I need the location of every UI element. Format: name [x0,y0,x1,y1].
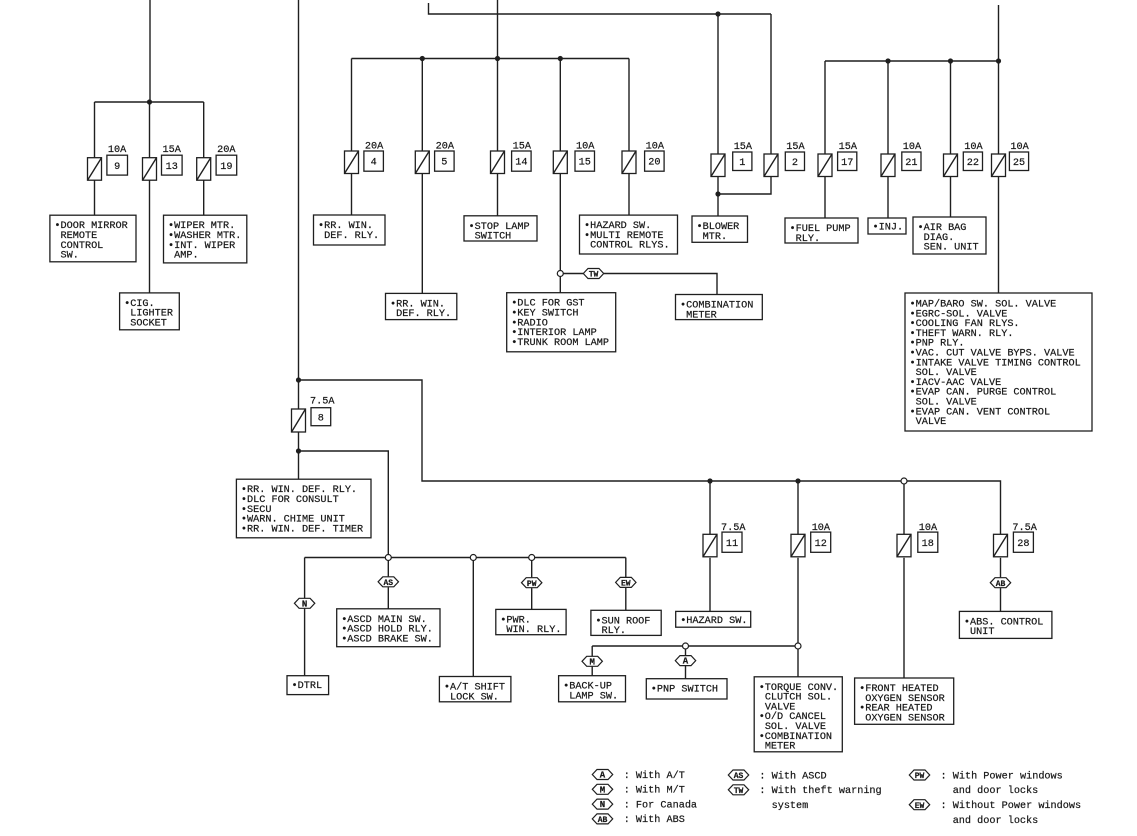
wire to A symbol [685,646,687,655]
wire fuse 19 to wiper box [203,180,205,215]
fuse F2 (15A) [764,142,806,177]
svg-text:25: 25 [1013,158,1025,169]
svg-text:•PNP SWITCH: •PNP SWITCH [651,685,718,696]
option symbol AB - legend [592,814,612,825]
wire bus C [592,645,798,647]
load box: RR WIN DEF RLY (1) [314,215,386,245]
fuse F12 (10A) [791,523,831,557]
svg-text:4: 4 [371,158,377,169]
svg-text:TW: TW [734,787,744,796]
svg-text:14: 14 [515,158,527,169]
load box: RR WIN DEF RLY / DLC FOR CONSULT / SECU / WARN CHIME UNIT / RR WIN DEF TIMER [236,479,371,538]
wire bus 3 [825,60,999,62]
svg-text:: With ASCD: : With ASCD [759,770,826,782]
fuse F17 (15A) [818,142,858,177]
svg-text:7.5A: 7.5A [721,523,746,534]
junction connector [557,271,563,277]
wire to fuse 18 [903,481,905,534]
load box: COMBINATION METER [676,295,763,322]
load box: WIPER MTR / WASHER MTR / INT WIPER AMP [164,215,247,263]
wire fuse 14 to stop lamp box [497,174,499,216]
wire to fuse 13 [149,102,151,158]
junction [885,58,890,63]
wire fuse 22 to air bag box [950,177,952,218]
svg-text:CONTROL RLYS.: CONTROL RLYS. [590,241,669,252]
load box: HAZARD SW. [676,611,751,627]
junction [558,56,563,61]
junction [715,11,720,16]
load box: BACK-UP LAMP SW. [559,676,626,703]
wire to fuse 14 upper [497,59,499,152]
option symbol AS - with ASCD [378,577,398,588]
svg-text:10A: 10A [903,142,922,153]
fuse F4 (20A) [345,141,385,173]
load box: CIG. LIGHTER SOCKET [120,293,180,330]
svg-text:A: A [600,771,606,781]
option symbol N - legend [592,799,612,810]
junction [147,99,152,104]
svg-text:SOCKET: SOCKET [130,319,167,330]
wire to fuse 21 [887,61,889,154]
fuse F28 (7.5A) [994,523,1038,557]
fuse F21 (10A) [881,142,922,177]
svg-text:7.5A: 7.5A [1012,523,1037,534]
svg-text:RLY.: RLY. [602,626,626,637]
wire to fuse 12 [797,481,799,534]
option symbol N - for Canada [294,598,314,609]
fuse F25 (10A) [992,142,1030,177]
option symbol A - with A/T [675,656,695,667]
svg-text:AB: AB [996,580,1006,589]
junction [715,191,720,196]
fuse F13 (15A) [143,145,183,180]
fuse F19 (20A) [197,145,237,180]
svg-text:WIN. RLY.: WIN. RLY. [506,625,561,636]
wire fuse 9 to door mirror box [94,180,96,215]
wire feed to bus 2 [497,0,499,59]
svg-text:AS: AS [383,579,393,588]
wire fuse 5 to rr win def rly box 2 [421,174,423,294]
svg-text:•ASCD BRAKE SW.: •ASCD BRAKE SW. [341,634,433,645]
wire PW to pwr win rly box [531,588,533,609]
svg-text:RLY.: RLY. [796,234,820,245]
wire to fuse 22 [950,61,952,154]
svg-text:2: 2 [792,158,798,169]
load box: DTRL [287,676,329,695]
svg-text:AS: AS [734,772,744,781]
wire to a/t shift lock box [472,558,474,677]
svg-text:13: 13 [166,162,178,173]
load box: HAZARD SW / MULTI REMOTE CONTROL RLYS [580,215,678,254]
option symbol EW - without power windows [616,577,636,588]
svg-text:: With A/T: : With A/T [624,770,685,782]
wire to fuse 2 [770,14,772,154]
wire bus2 to fuse 14 [497,151,499,174]
wire feed left [149,0,151,102]
svg-text:15A: 15A [513,141,532,152]
option symbol PW - with power windows [522,578,542,589]
svg-text:M: M [600,785,605,795]
fuse F5 (20A) [415,141,455,173]
svg-text:18: 18 [922,539,934,550]
svg-text:DEF. RLY.: DEF. RLY. [396,309,451,320]
svg-text:: With M/T: : With M/T [624,785,685,797]
wire bus A [305,557,626,559]
svg-text:: Without Power windows: : Without Power windows [941,800,1082,812]
svg-text:system: system [772,801,809,812]
junction connector [795,643,801,649]
wire AB to abs control box [1000,588,1002,611]
svg-text:20A: 20A [436,141,455,152]
svg-text:•INJ.: •INJ. [873,223,904,234]
junction [707,478,712,483]
svg-text:A: A [683,657,689,667]
wire EW to sun roof box [625,588,627,611]
option symbol TW - with theft warning [583,269,603,280]
wire fuse 18 to oxygen sensor box [903,558,905,678]
svg-text:LOCK SW.: LOCK SW. [450,692,499,703]
option symbol M - legend [592,784,612,795]
option symbol AB - with ABS [990,578,1010,589]
svg-text:•DTRL: •DTRL [292,681,323,692]
svg-text:: With Power windows: : With Power windows [941,770,1063,782]
svg-text:PW: PW [915,772,925,781]
svg-text:10A: 10A [919,523,938,534]
svg-text:10A: 10A [108,145,127,156]
svg-text:and door locks: and door locks [953,815,1039,827]
wire fuse 28 to AB symbol [1000,558,1002,578]
fuse F18 (10A) [897,523,938,557]
load box: SUN ROOF RLY. [591,610,661,637]
svg-text:METER: METER [686,310,717,321]
wire fuse 20 to hazard box [628,174,630,216]
fuse F20 (10A) [622,141,665,173]
wire to PW symbol [531,558,533,578]
svg-text:9: 9 [114,162,120,173]
option symbol M - with M/T [582,656,602,667]
wire to fuse 5 [421,59,423,152]
svg-text:and door locks: and door locks [953,785,1039,797]
wire top bus 1 [429,3,772,14]
svg-text:5: 5 [441,158,447,169]
wire fuse 21 to inj box [887,177,889,219]
svg-text:10A: 10A [964,142,983,153]
svg-text:N: N [600,800,605,810]
junction [996,58,1001,63]
wire to fuse 17 [824,61,826,154]
svg-text:21: 21 [905,158,917,169]
wire fuse 2 merge [718,177,771,195]
svg-text:TW: TW [589,271,599,280]
svg-text:PW: PW [527,580,537,589]
wire N to DTRL box [304,609,306,676]
svg-text:28: 28 [1017,539,1029,550]
wire to bus A [299,451,389,558]
load box: STOP LAMP SWITCH [464,216,537,243]
svg-text:UNIT: UNIT [970,627,994,638]
svg-text:7.5A: 7.5A [310,397,335,408]
junction connector [901,478,907,484]
load box: ABS. CONTROL UNIT [959,611,1052,638]
junction connector [683,643,689,649]
svg-text:•TRUNK ROOM LAMP: •TRUNK ROOM LAMP [511,338,609,349]
load box: RR WIN DEF RLY (2) [386,293,457,320]
wire to fuse 9 [94,102,96,158]
svg-text:15A: 15A [734,142,753,153]
load box: FUEL PUMP RLY. [785,218,858,245]
svg-text:AB: AB [598,816,608,825]
svg-text:15A: 15A [839,142,858,153]
svg-text:22: 22 [967,158,979,169]
wire fuse 8 to consult box [298,432,300,479]
wire to fuse 15 [559,59,561,152]
wire to fuse 4 [351,59,353,152]
svg-text:N: N [302,599,307,609]
load box: DOOR MIRROR REMOTE CONTROL SW. [50,215,136,262]
load box: BLOWER MTR. [692,216,748,243]
fuse F22 (10A) [944,142,984,177]
svg-text:20: 20 [648,158,660,169]
svg-text:10A: 10A [646,141,665,152]
junction [296,377,301,382]
junction [420,56,425,61]
load box: PWR. WIN. RLY. [496,609,566,636]
load box: AIR BAG DIAG. SEN. UNIT [913,217,986,254]
svg-text:•RR. WIN. DEF. TIMER: •RR. WIN. DEF. TIMER [241,524,363,535]
wire fuse 15 to dlc box [559,174,561,293]
svg-text:15: 15 [579,158,591,169]
wire bus B feed [299,380,1001,534]
wire bus 2 [352,58,630,60]
wire to fuse 11 [709,481,711,534]
junction connector [470,555,476,561]
option symbol EW - legend [909,800,929,811]
junction [948,58,953,63]
svg-text:1: 1 [739,158,745,169]
load box: INJ. [868,218,906,234]
svg-text:: With ABS: : With ABS [624,814,685,826]
wire to fuse 1 [717,14,719,154]
load box: PNP SWITCH [646,679,727,699]
junction [495,56,500,61]
svg-text:19: 19 [220,162,232,173]
wire fuse 17 to fuel pump box [824,177,826,219]
svg-text:10A: 10A [1010,142,1029,153]
svg-text:: With theft warning: : With theft warning [759,785,881,797]
wire fuse 4 to rr win def rly box [351,174,353,216]
svg-text:17: 17 [841,158,853,169]
svg-text:20A: 20A [365,141,384,152]
wire fuse 12 to torque conv box [797,558,799,677]
fuse F9 (10A) [88,145,128,180]
option symbol PW - legend [909,770,929,781]
wire to TW symbol [560,273,583,275]
junction [296,448,301,453]
svg-text:OXYGEN SENSOR: OXYGEN SENSOR [865,713,944,724]
load box: FRONT & REAR HEATED OXYGEN SENSOR [855,678,954,724]
svg-text:SW.: SW. [61,251,79,262]
wire to EW symbol [625,558,627,578]
wire fuse 11 to hazard sw box [709,558,711,612]
fuse F1 (15A) [711,142,753,177]
svg-text:EW: EW [915,802,925,811]
svg-text:AMP.: AMP. [174,251,198,262]
svg-text:10A: 10A [812,523,831,534]
option symbol AS - legend [728,770,748,781]
wire to N symbol [304,558,306,599]
option symbol TW - legend [728,785,748,796]
load box: A/T SHIFT LOCK SW. [439,677,511,704]
fuse F14 (15A) [491,141,532,173]
svg-text:: For Canada: : For Canada [624,799,697,811]
svg-text:SWITCH: SWITCH [475,232,512,243]
fuse F8 (7.5A) [292,397,336,433]
wire TW to combination meter box [604,274,717,295]
svg-text:EW: EW [621,580,631,589]
fuse F11 (7.5A) [703,523,746,557]
svg-text:METER: METER [765,742,796,753]
svg-text:DEF. RLY.: DEF. RLY. [324,231,379,242]
svg-text:12: 12 [815,539,827,550]
wire fuse 1 to blower box [717,177,719,217]
svg-text:10A: 10A [576,141,595,152]
junction connector [529,555,535,561]
svg-text:11: 11 [726,539,738,550]
wire to fuse 20 [628,59,630,152]
option symbol A - legend [592,770,612,781]
wire fuse 25 to solenoid list box [998,177,1000,294]
wire left bus [95,101,204,103]
wire feed to fuse 8 [298,0,300,409]
svg-text:MTR.: MTR. [703,232,727,243]
wire feed right to fuse 25 [998,5,1000,154]
load box: ASCD MAIN SW / ASCD HOLD RLY / ASCD BRAKE SW [337,609,440,647]
wire A to pnp switch box [685,666,687,679]
svg-text:VALVE: VALVE [916,417,947,428]
fuse F15 (10A) [553,141,595,173]
load box: DLC FOR GST / KEY SWITCH / RADIO / INTERIOR LAMP / TRUNK ROOM LAMP [507,293,616,352]
svg-text:15A: 15A [786,142,805,153]
svg-text:•HAZARD SW.: •HAZARD SW. [680,616,747,627]
wire to fuse 19 [203,102,205,158]
svg-text:LAMP SW.: LAMP SW. [569,692,618,703]
wire M to back-up lamp box [591,667,593,676]
wire to AS symbol [387,558,389,577]
wire to M symbol [591,646,593,656]
svg-text:15A: 15A [163,145,182,156]
load box: TORQUE CONV CLUTCH SOL VALVE / OD CANCEL SOL VALVE / COMBINATION METER [754,677,842,753]
wire AS to ascd box [387,587,389,609]
load box: ENGINE SOLENOID VALVE LIST [905,293,1092,431]
svg-text:SEN. UNIT: SEN. UNIT [924,243,979,254]
svg-text:M: M [589,657,594,667]
junction connector [385,555,391,561]
svg-text:8: 8 [318,413,324,424]
junction [795,478,800,483]
svg-text:20A: 20A [217,145,236,156]
wire fuse 13 to cig lighter box [149,180,151,293]
